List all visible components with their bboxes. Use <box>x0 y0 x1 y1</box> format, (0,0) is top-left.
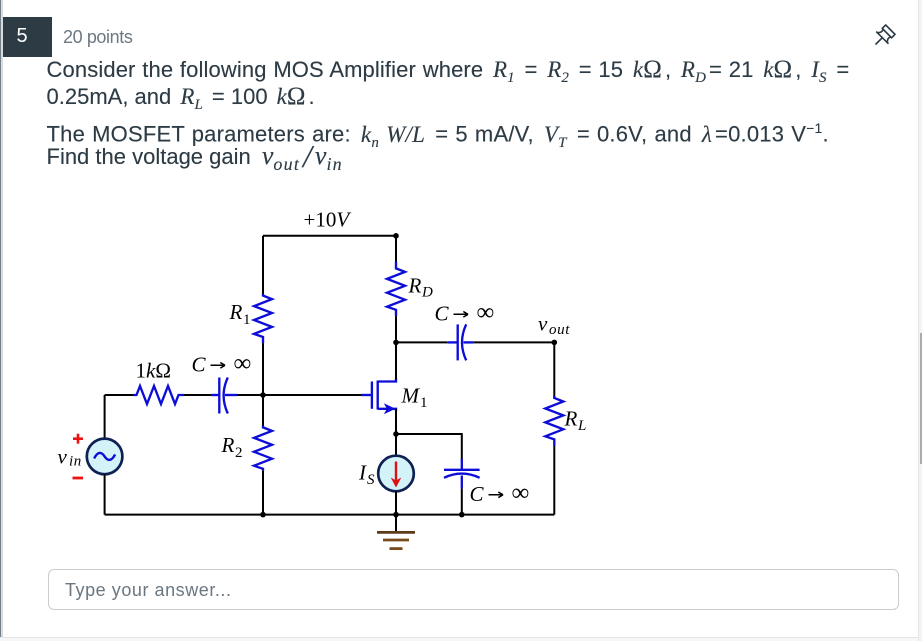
node source <box>393 431 399 437</box>
wire RD to drain node <box>395 316 397 342</box>
svg-text:R: R <box>229 300 243 324</box>
node ground junction <box>393 512 399 518</box>
node bypass bottom <box>459 512 465 518</box>
wire RL to bottom rail <box>553 446 555 515</box>
svg-text:M: M <box>401 384 421 408</box>
wire vout to RL <box>553 342 555 398</box>
svg-text:1kΩ: 1kΩ <box>136 359 171 383</box>
svg-text:C: C <box>470 482 485 506</box>
label 1kOhm <box>136 359 171 383</box>
svg-text:v: v <box>58 445 68 469</box>
node bottom R2 <box>260 512 266 518</box>
label C1 infinity <box>192 350 252 377</box>
label R2 <box>221 433 243 461</box>
capacitor C3 bypass <box>444 459 480 488</box>
pushpin icon <box>871 18 901 48</box>
svg-text:L: L <box>577 418 586 434</box>
wire IS to bottom rail <box>395 491 397 514</box>
svg-text:R: R <box>408 274 422 298</box>
resistor 1k <box>133 386 184 404</box>
svg-text:D: D <box>421 285 433 301</box>
label plus <box>73 434 83 444</box>
label C2 infinity <box>435 299 495 326</box>
wire source node to IS <box>395 434 397 456</box>
svg-text:∞: ∞ <box>512 480 530 507</box>
svg-text:S: S <box>367 472 375 488</box>
capacitor C1 input coupling <box>211 378 237 414</box>
label +10V <box>304 208 352 232</box>
current source IS <box>378 456 414 492</box>
resistor RD <box>387 262 405 316</box>
wire source node to bypass branch <box>396 434 462 460</box>
wire R1 to gate node <box>262 343 264 427</box>
node +10V supply <box>393 233 399 239</box>
label minus <box>73 477 84 480</box>
label IS <box>358 461 375 489</box>
wire vin to 1k resistor <box>105 394 133 396</box>
svg-text:I: I <box>358 461 367 485</box>
svg-text:1: 1 <box>420 395 428 411</box>
wire C1 to gate <box>237 394 361 396</box>
wire RD column top <box>395 236 397 269</box>
label RD <box>408 274 434 301</box>
ground <box>377 515 415 549</box>
svg-text:1: 1 <box>243 312 251 328</box>
svg-text:out: out <box>549 322 570 338</box>
wire C3 to bottom rail <box>461 488 463 514</box>
node drain <box>393 340 399 346</box>
wire drain node to C2 <box>396 341 447 343</box>
wire R2 to bottom rail <box>262 471 264 515</box>
label R1 <box>229 300 251 328</box>
svg-text:R: R <box>221 433 235 457</box>
voltage source vin <box>87 395 123 474</box>
label vout <box>538 312 570 339</box>
transistor M1 <box>361 379 396 414</box>
label M1 <box>401 384 428 412</box>
label RL <box>564 407 587 435</box>
svg-text:C: C <box>435 302 450 326</box>
wire bottom rail <box>105 514 555 516</box>
wire drain node to MOSFET drain <box>395 342 397 379</box>
label vin <box>58 445 82 470</box>
svg-text:∞: ∞ <box>477 299 495 326</box>
svg-text:R: R <box>564 407 578 431</box>
svg-text:∞: ∞ <box>234 350 252 377</box>
node vout <box>552 340 558 346</box>
wire 1k to C1 <box>184 394 211 396</box>
svg-text:+10V: +10V <box>304 208 352 232</box>
svg-text:v: v <box>538 312 548 336</box>
node gate divider junction <box>260 392 266 398</box>
svg-text:2: 2 <box>235 445 243 461</box>
wire top rail <box>263 235 396 237</box>
capacitor C2 output coupling <box>447 324 473 360</box>
wire C2 to vout node <box>474 341 555 343</box>
wire left column above R1 <box>262 236 264 296</box>
wire vin to bottom rail <box>104 474 106 514</box>
wire MOSFET source to source node <box>395 409 397 434</box>
resistor R2 <box>254 426 272 471</box>
svg-text:C: C <box>192 353 207 377</box>
label C3 infinity <box>470 480 530 507</box>
svg-text:in: in <box>69 454 82 470</box>
resistor RL <box>545 396 563 446</box>
resistor R1 <box>254 294 272 343</box>
